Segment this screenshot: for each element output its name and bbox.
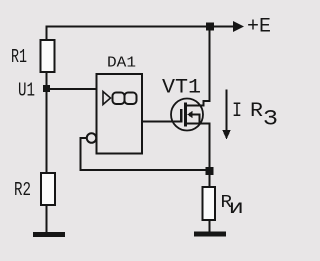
svg-text:U1: U1 [18, 80, 35, 102]
svg-text:З: З [264, 107, 278, 132]
svg-text:+E: +E [247, 16, 271, 39]
svg-text:DA1: DA1 [107, 55, 136, 72]
svg-text:R1: R1 [11, 46, 27, 68]
svg-text:R2: R2 [14, 179, 31, 201]
svg-text:И: И [229, 200, 244, 218]
svg-text:I: I [232, 100, 242, 123]
svg-text:VT1: VT1 [162, 77, 201, 100]
svg-text:R: R [250, 100, 263, 123]
